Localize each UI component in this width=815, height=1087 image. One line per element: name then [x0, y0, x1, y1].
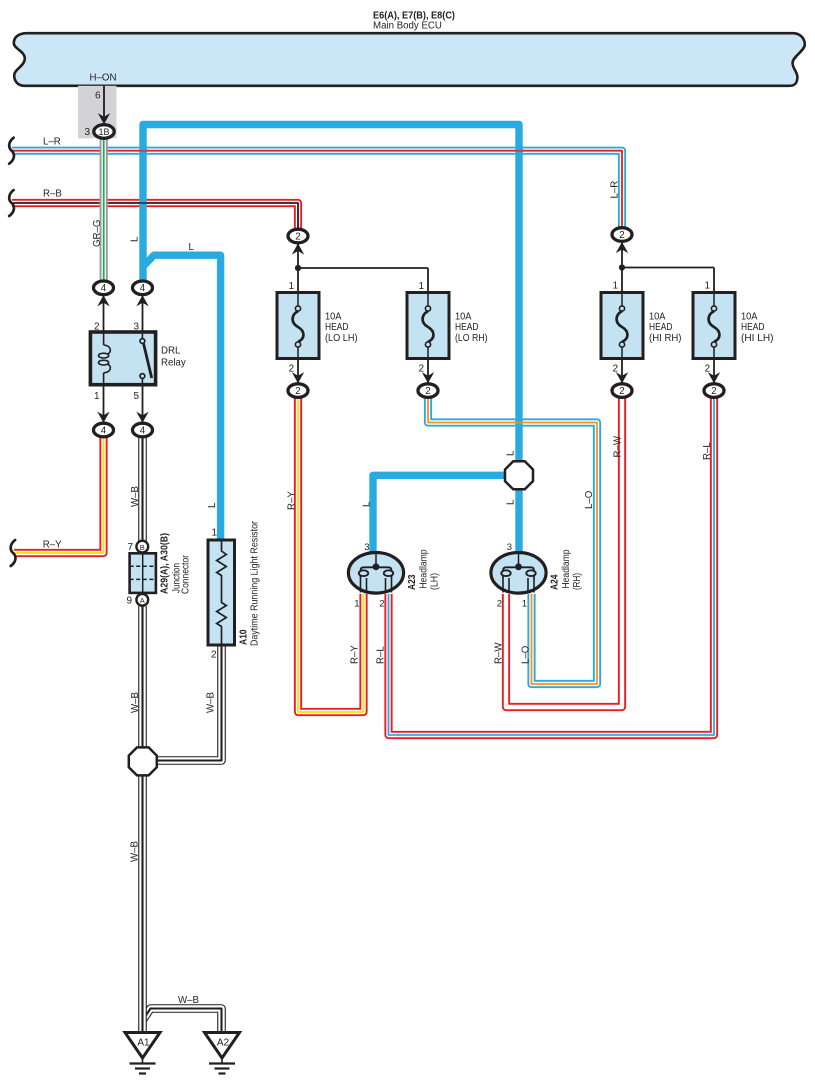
- svg-text:1: 1: [418, 281, 424, 292]
- connector 2 oval above fuse LO LH: [288, 229, 308, 243]
- wire L-R to fuse HI RH: [12, 151, 622, 228]
- svg-text:Relay: Relay: [161, 358, 186, 369]
- svg-text:2: 2: [619, 230, 624, 241]
- svg-text:2: 2: [94, 322, 100, 333]
- wire L octagon splice to headlamp A23 pin3: [373, 475, 506, 552]
- svg-text:W–B: W–B: [130, 692, 141, 713]
- svg-text:W–B: W–B: [178, 995, 199, 1006]
- svg-text:2: 2: [497, 599, 502, 610]
- svg-text:L–O: L–O: [584, 490, 595, 509]
- svg-text:2: 2: [418, 364, 424, 375]
- svg-text:1: 1: [354, 599, 359, 610]
- svg-text:R–L: R–L: [702, 442, 713, 460]
- svg-text:9: 9: [126, 596, 132, 607]
- svg-text:L–R: L–R: [610, 181, 621, 199]
- fuse bottom pin lines: [297, 359, 299, 384]
- junction connector A29(A), A30(B): [136, 541, 148, 553]
- wire L octagon splice to headlamp A24 pin3: [515, 487, 522, 552]
- connector 4 oval, relay pin 3: [133, 281, 153, 295]
- svg-text:A: A: [140, 596, 145, 605]
- svg-text:GR–G: GR–G: [92, 220, 103, 247]
- svg-text:10A: 10A: [455, 312, 472, 323]
- ground A2: [205, 1033, 240, 1074]
- wire R-Y fuse LO LH to headlamp A23 pin1: [298, 397, 364, 712]
- svg-text:10A: 10A: [325, 312, 342, 323]
- svg-text:(LO LH): (LO LH): [325, 333, 358, 344]
- svg-text:4: 4: [140, 425, 146, 436]
- ground A1: [125, 1033, 160, 1074]
- relay coil: [103, 332, 105, 345]
- wire W-B relay pin5 to junction connector B: [138, 436, 147, 541]
- relay switch: [141, 332, 143, 339]
- svg-text:B: B: [140, 543, 145, 552]
- svg-text:3: 3: [507, 542, 512, 553]
- svg-text:L: L: [130, 236, 141, 242]
- svg-text:HEAD: HEAD: [325, 322, 349, 333]
- svg-text:L: L: [506, 450, 517, 456]
- svg-text:Headlamp: Headlamp: [561, 549, 572, 588]
- svg-text:R–Y: R–Y: [43, 540, 62, 551]
- svg-text:R–W: R–W: [494, 642, 505, 664]
- connector 2 oval below fuse at x=298: [292, 372, 304, 383]
- wire R-B to fuse LO LH: [12, 203, 298, 229]
- resistor A10 Daytime Running Light Resistor: [208, 540, 235, 645]
- svg-text:HEAD: HEAD: [455, 322, 479, 333]
- svg-text:2: 2: [704, 364, 710, 375]
- svg-text:(LO RH): (LO RH): [455, 333, 488, 344]
- svg-text:(LH): (LH): [430, 573, 441, 590]
- svg-text:Headlamp: Headlamp: [419, 549, 430, 588]
- headlamp A23 (LH): [348, 553, 403, 594]
- svg-text:L: L: [207, 502, 218, 508]
- wire W-B splice octagon to ground A1: [138, 775, 147, 1033]
- wire W-B junction connector A to splice octagon: [138, 606, 147, 748]
- svg-text:2: 2: [295, 231, 300, 242]
- svg-text:A24: A24: [550, 574, 561, 590]
- pin lines and bus at HI fuses: [621, 242, 623, 293]
- wire L branch to daytime running light resistor A10: [143, 255, 221, 541]
- svg-text:1: 1: [522, 599, 527, 610]
- break symbol L-R: [9, 138, 14, 164]
- connector 2 oval below fuse at x=428: [422, 372, 434, 383]
- svg-text:A2: A2: [217, 1038, 230, 1049]
- DRL relay box: [90, 332, 155, 385]
- wire R-Y stub to relay pin1 connector: [14, 437, 104, 553]
- svg-text:10A: 10A: [649, 312, 666, 323]
- svg-text:10A: 10A: [741, 312, 758, 323]
- svg-text:2: 2: [379, 599, 384, 610]
- svg-text:(RH): (RH): [572, 573, 583, 590]
- headlamp A24 (RH): [491, 553, 546, 594]
- svg-text:2: 2: [612, 364, 618, 375]
- break symbol R-B: [9, 190, 14, 216]
- svg-text:R–L: R–L: [376, 646, 387, 664]
- svg-text:R–Y: R–Y: [287, 491, 298, 510]
- splice octagon L (headlamps): [505, 461, 533, 489]
- svg-text:L: L: [506, 499, 517, 505]
- svg-text:H–ON: H–ON: [90, 72, 117, 83]
- connector 2 oval below fuse at x=622: [616, 372, 628, 383]
- svg-text:A10: A10: [239, 629, 250, 645]
- stripe overlays at crossings: [139, 150, 148, 152]
- svg-text:(HI RH): (HI RH): [649, 333, 682, 344]
- wire R-W fuse HI RH to headlamp A24 pin2: [506, 397, 622, 707]
- wire W-B resistor A10 pin2 to splice octagon: [156, 645, 222, 761]
- svg-text:Connector: Connector: [181, 554, 192, 594]
- svg-text:2: 2: [425, 386, 430, 397]
- svg-text:Daytime Running Light Resistor: Daytime Running Light Resistor: [250, 520, 261, 646]
- svg-text:HEAD: HEAD: [649, 322, 673, 333]
- svg-text:1: 1: [288, 281, 294, 292]
- svg-text:L: L: [362, 501, 373, 507]
- svg-text:A23: A23: [407, 574, 418, 590]
- svg-text:R–W: R–W: [613, 435, 624, 457]
- svg-text:1: 1: [612, 281, 618, 292]
- svg-text:1: 1: [704, 281, 710, 292]
- wire R-L fuse HI LH to headlamp A23 pin2: [389, 397, 715, 735]
- svg-text:R–B: R–B: [43, 188, 62, 199]
- svg-text:2: 2: [711, 386, 716, 397]
- fuse 10A HEAD (HI LH): [693, 293, 774, 359]
- fuse 10A HEAD (HI RH): [601, 293, 682, 359]
- splice octagon W-B: [129, 747, 157, 775]
- svg-text:A1: A1: [137, 1038, 150, 1049]
- connector 2 oval above fuse HI RH: [612, 228, 632, 242]
- connector 4 oval, relay pin 5: [136, 412, 148, 423]
- wire L main: relay connector to ECU row to octagon splice: [143, 125, 519, 465]
- Main Body ECU bar E6(A), E7(B), E8(C): [14, 33, 805, 86]
- svg-text:W–B: W–B: [206, 692, 217, 713]
- fuse 10A HEAD (LO RH): [407, 293, 488, 359]
- pin lines and bus at LO fuses: [297, 243, 299, 292]
- fuse 10A HEAD (LO LH): [277, 293, 358, 359]
- wire GR-G from ECU 1B to DRL relay connector: [100, 138, 108, 281]
- svg-text:L–R: L–R: [43, 136, 61, 147]
- svg-text:Main Body ECU: Main Body ECU: [373, 20, 442, 31]
- connector shading pin 6 to 1B: [78, 86, 117, 139]
- connector 4 oval, relay pin 1: [97, 412, 109, 423]
- svg-text:4: 4: [101, 283, 107, 294]
- connector 4 oval, relay pin 2: [94, 281, 114, 295]
- svg-text:1B: 1B: [98, 127, 109, 137]
- svg-text:W–B: W–B: [130, 841, 141, 862]
- svg-text:W–B: W–B: [130, 486, 141, 507]
- svg-text:1: 1: [211, 528, 217, 539]
- svg-text:(HI LH): (HI LH): [741, 333, 774, 344]
- wire L-O fuse LO RH to headlamp A24 pin1: [428, 397, 597, 684]
- wire W-B branch to ground A2: [143, 1009, 222, 1034]
- svg-text:4: 4: [101, 425, 107, 436]
- svg-text:6: 6: [95, 91, 101, 102]
- svg-text:3: 3: [84, 127, 90, 138]
- svg-text:4: 4: [140, 283, 146, 294]
- svg-text:A29(A), A30(B): A29(A), A30(B): [160, 533, 171, 594]
- svg-text:L–O: L–O: [521, 645, 532, 664]
- svg-text:7: 7: [127, 542, 133, 553]
- relay pin lines: [103, 295, 105, 332]
- svg-text:1: 1: [94, 391, 100, 402]
- svg-text:L: L: [189, 242, 195, 253]
- svg-text:DRL: DRL: [161, 346, 181, 357]
- break symbol R-Y: [11, 540, 16, 566]
- svg-text:2: 2: [288, 364, 294, 375]
- svg-text:5: 5: [133, 391, 139, 402]
- svg-text:2: 2: [211, 650, 217, 661]
- svg-text:R–Y: R–Y: [350, 645, 361, 664]
- connector 2 oval below fuse at x=714: [708, 372, 720, 383]
- svg-text:2: 2: [619, 386, 624, 397]
- svg-text:HEAD: HEAD: [741, 322, 765, 333]
- svg-text:3: 3: [364, 542, 369, 553]
- svg-text:3: 3: [133, 322, 139, 333]
- svg-text:2: 2: [295, 386, 300, 397]
- connector 1B at ECU: [98, 113, 110, 124]
